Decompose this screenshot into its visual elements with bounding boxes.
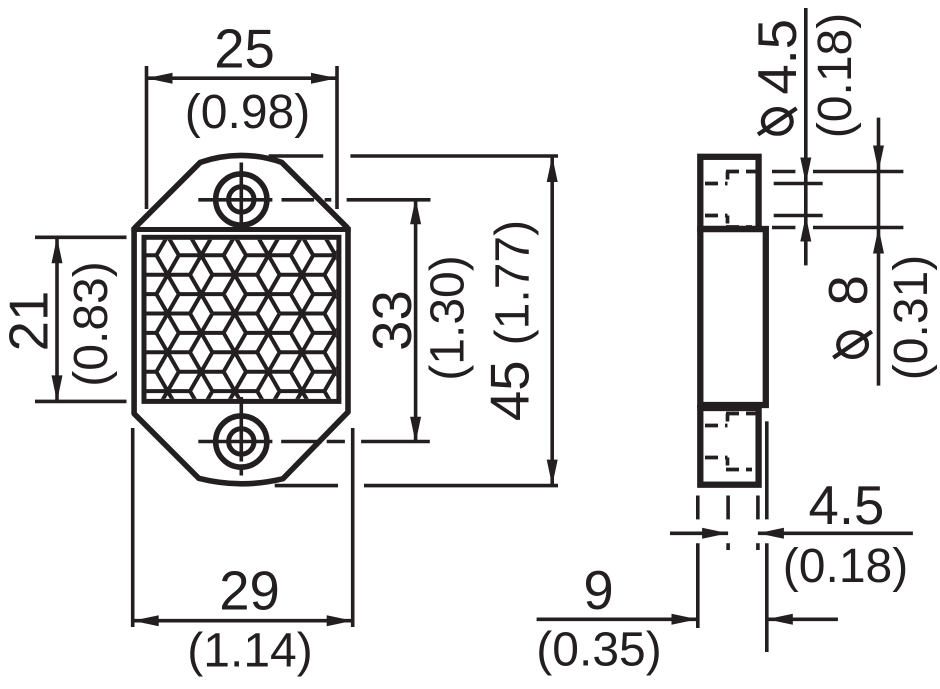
dim 25 line with arrows [147,76,338,80]
dim 33 line with arrows [414,198,418,442]
svg-text:8: 8 [818,275,879,305]
dim 29 line with arrows [133,619,353,623]
dim 9 extension lines [696,496,700,520]
top hole vertical centerline [240,163,244,172]
side view body [700,229,766,405]
dim 4.5 line with arrows [670,531,728,535]
dim Ø8 leader with arrows [877,118,881,386]
diameter symbol of Ø8 [833,332,872,358]
svg-text:4.5: 4.5 [809,475,885,536]
reflector front-view outline body [134,155,348,483]
svg-text:(0.35): (0.35) [536,624,661,677]
mounting hole top: outer circle Ø8 [216,174,267,225]
svg-text:(0.83): (0.83) [65,261,118,386]
counterbore step verticals (dashed) [726,172,730,184]
dim 9 line with arrows [537,617,698,621]
svg-text:(0.31): (0.31) [885,255,938,380]
svg-text:29: 29 [219,561,280,622]
extension line to 33-dim (bottom) [361,440,430,444]
svg-text:21: 21 [0,291,60,352]
hidden hole lines top tab (dashed) [705,172,757,470]
svg-text:25: 25 [214,19,275,80]
mounting hole bottom: outer circle Ø8 [216,416,267,467]
mounting hole bottom: inner circle Ø4.5 [229,429,254,454]
bottom hole horizontal centerline [198,440,272,444]
svg-text:45 (1.77): 45 (1.77) [480,220,541,421]
dim 45 line with arrows [550,156,554,486]
diameter symbol of Ø4.5 [758,108,797,134]
reflective window frame [144,237,339,401]
svg-text:(0.18): (0.18) [809,13,862,138]
dim Ø4.5 extension lines [774,182,823,186]
svg-text:(1.30): (1.30) [422,255,475,380]
hidden hole lines bottom tab (dashed) [726,412,757,416]
dim 21 extension lines [35,236,127,240]
side view top mounting tab [700,157,758,229]
dim 29 extension lines [131,428,135,627]
side view bottom mounting tab [700,408,758,485]
svg-text:33: 33 [362,290,423,351]
dim 25 extension lines [145,66,149,209]
bottom hole vertical centerline [240,397,244,462]
dim 21 line with arrows [55,237,59,401]
dim Ø8 extension lines [772,170,795,174]
dim 45 extension lines [269,154,324,158]
dim 4.5 extension lines [726,496,730,520]
svg-text:4.5: 4.5 [747,19,808,95]
mounting hole top: inner circle Ø4.5 [229,187,254,212]
front face top edge [131,227,350,232]
svg-text:(0.98): (0.98) [185,86,310,139]
dim Ø4.5 leader with arrows [804,8,808,265]
svg-text:9: 9 [583,560,613,621]
top hole horizontal centerline [198,198,272,202]
svg-text:(0.18): (0.18) [783,540,908,593]
extension line to 33-dim (top) [347,198,431,202]
svg-text:(1.14): (1.14) [187,624,312,677]
